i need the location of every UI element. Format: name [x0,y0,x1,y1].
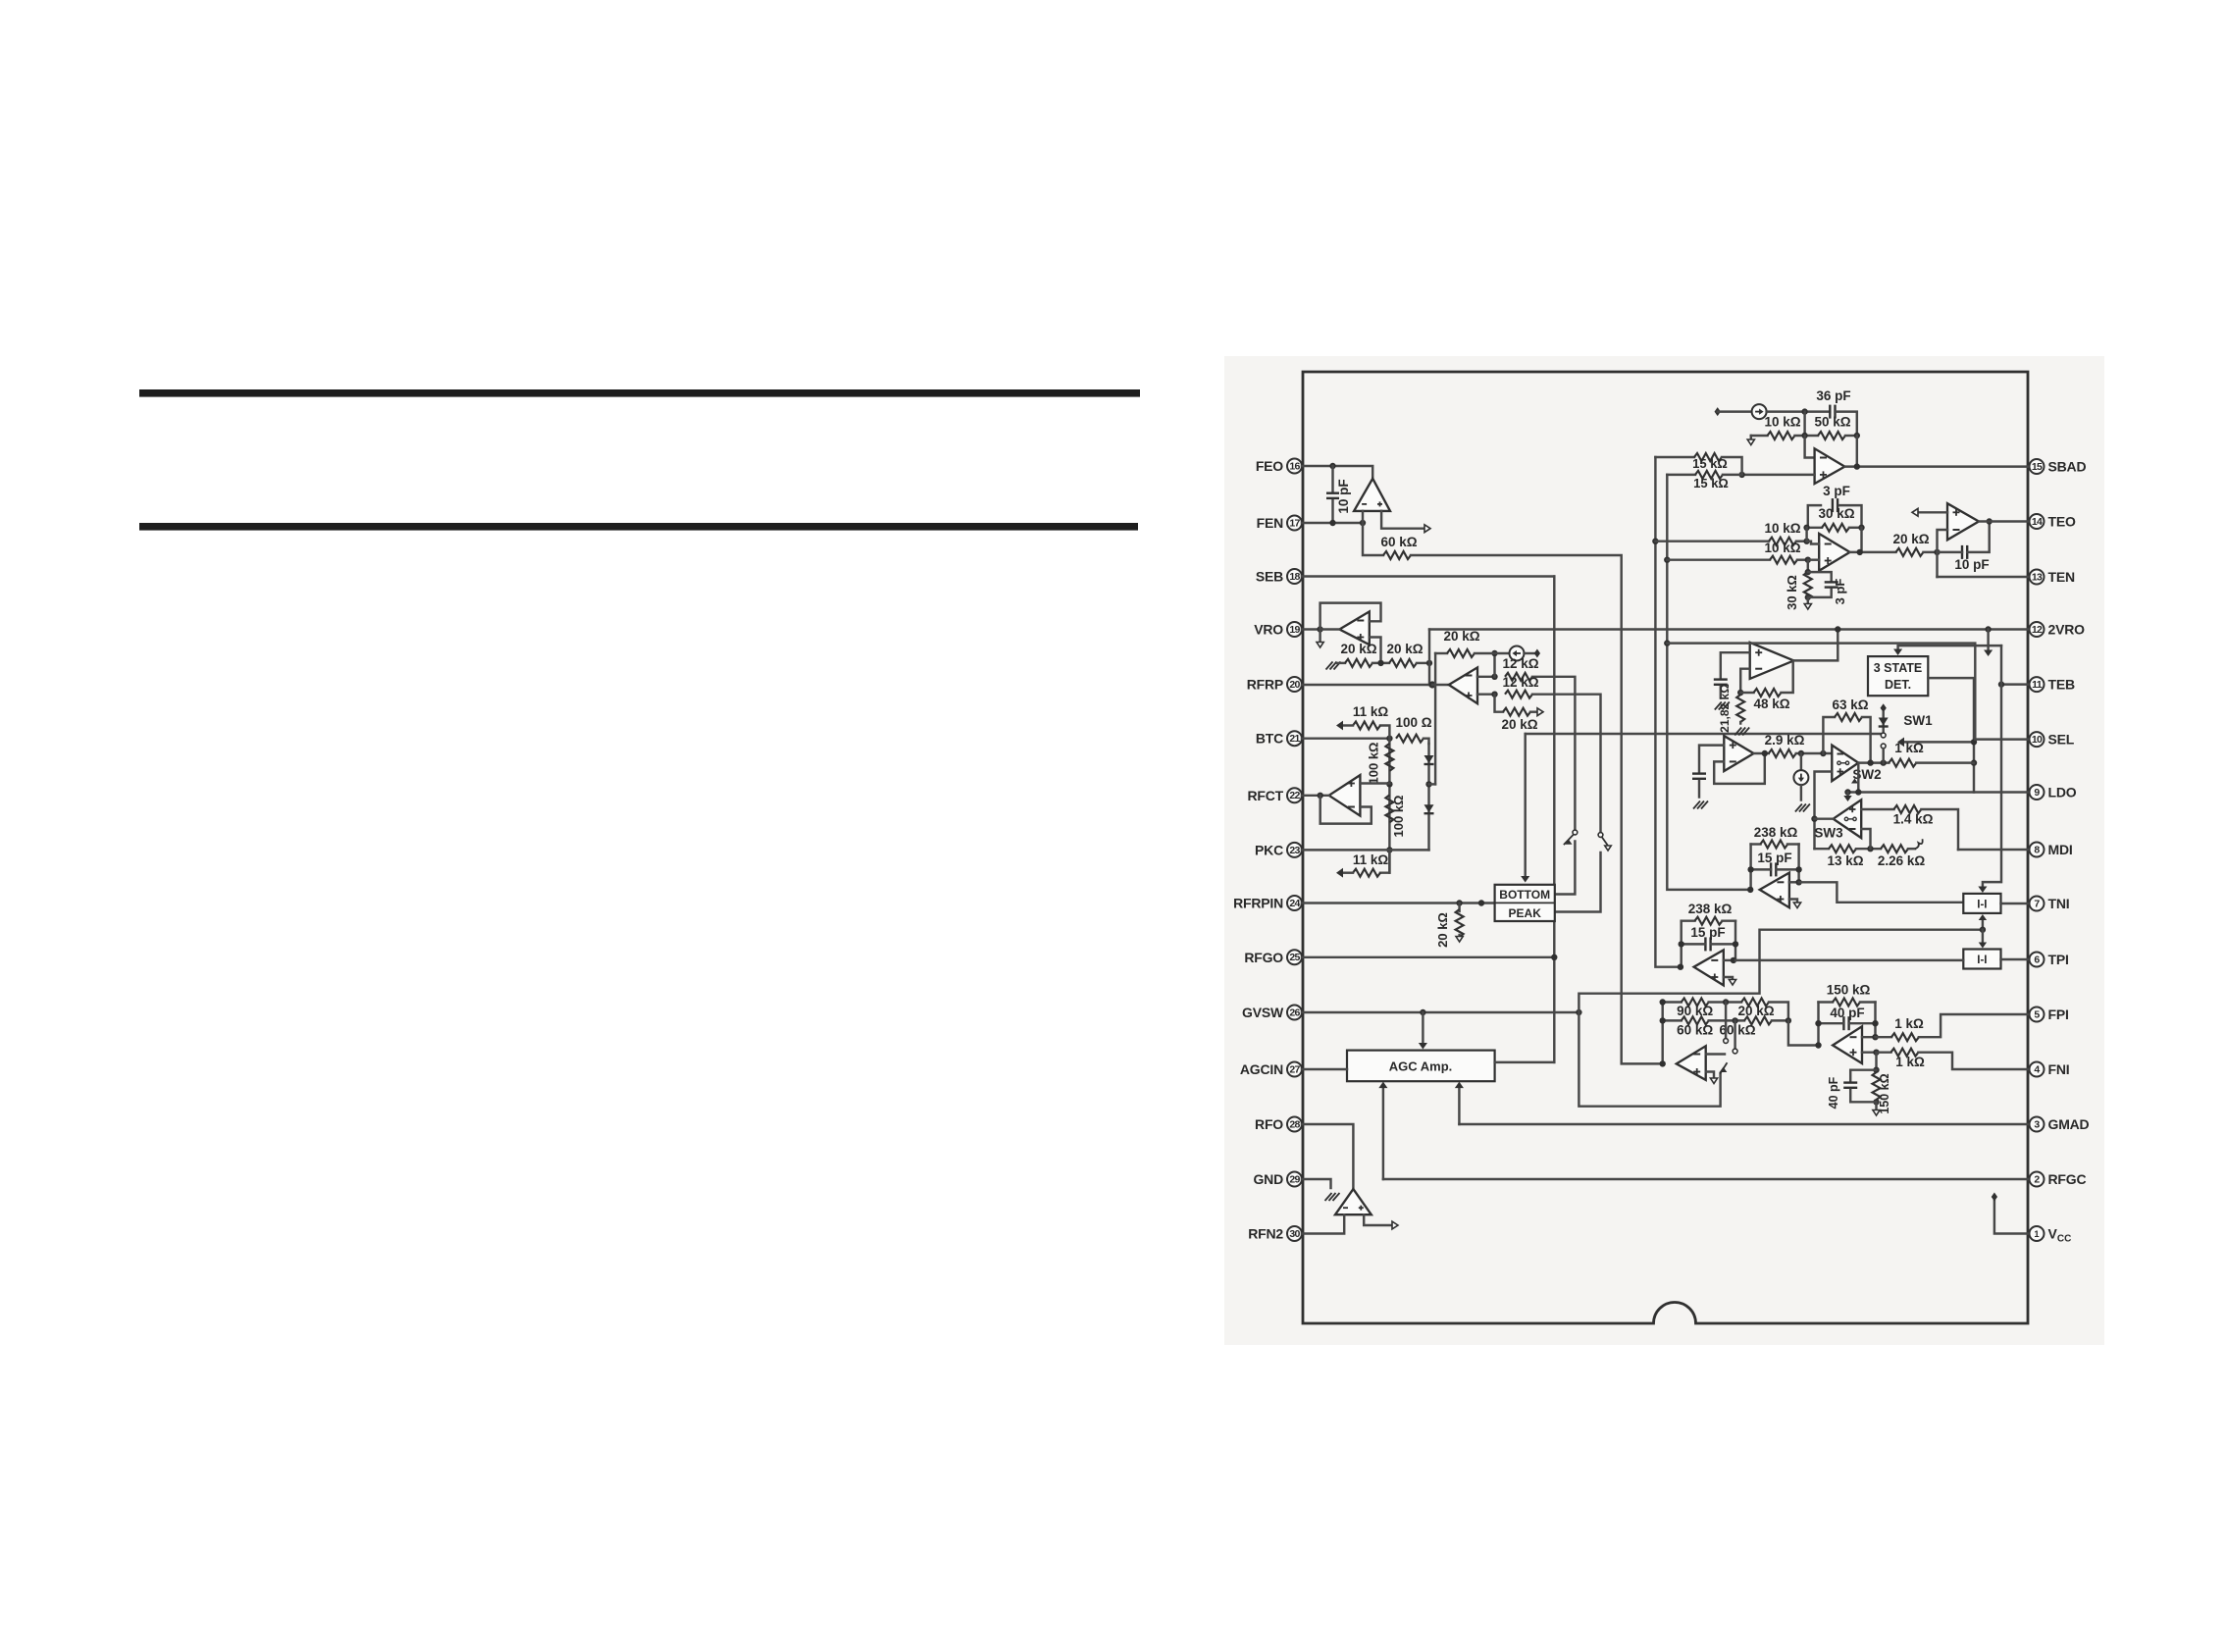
op-amp A16 (FPI amp) [1833,1026,1862,1063]
svg-text:3 pF: 3 pF [1823,484,1850,498]
wire GMAD riser into AGC [1458,1088,1460,1124]
node 9060 input node [1660,1060,1666,1066]
svg-text:10 kΩ: 10 kΩ [1764,541,1800,555]
wire 10k/50k row stem [1803,412,1805,436]
node FEN-cap junction [1329,520,1335,526]
svg-text:15 kΩ: 15 kΩ [1692,456,1728,471]
pin 3 GMAD [2030,1117,2045,1132]
svg-text:15 kΩ: 15 kΩ [1693,476,1729,490]
open arrow 150k-2 ground [1873,1110,1880,1116]
wire 36pF right corner [1836,412,1857,436]
svg-text:40 pF: 40 pF [1827,1076,1840,1109]
node int1 right cap node [1795,866,1801,872]
switch S-90k circle a [1724,1039,1729,1044]
wire 15pF a row [1751,868,1772,870]
wire 10pF left [1938,551,1963,553]
wire 30k to gnd arrow [1807,597,1809,603]
switch S-gv blade [1721,1063,1727,1073]
wire 15k#1 row [1655,456,1694,458]
node 150k-2 bottom node [1873,1099,1879,1105]
node 40pF right node [1872,1020,1878,1026]
wire cur-src3 stem [1800,753,1802,770]
node 1k-SW1 junction [1971,759,1977,765]
wire 3state right to SW1 column [1928,678,1974,792]
wire int1 left vertical [1749,845,1751,890]
wire RFGC riser into AGC [1382,1088,1384,1179]
box BOTTOM/PEAK detector [1495,885,1555,921]
svg-text:RFGC: RFGC [2048,1171,2087,1187]
wire SW1 annotation stem [1904,741,1974,743]
capacitor C-15pF a [1770,862,1772,876]
ground hatch 2.9k cap [1693,801,1700,809]
wire TEB vertical [1983,645,2001,886]
wire diode branch right [1429,783,1436,785]
node 2.9k mid node [1798,750,1804,756]
wire SW1 to SW2 out [1882,749,1884,763]
capacitor C-3pF top [1832,498,1834,512]
wire cs2 to cap [1767,410,1831,412]
resistor R-10k SBAD [1768,432,1795,439]
svg-text:12: 12 [2032,624,2043,636]
current source CS2 (arrow right) [1752,404,1767,419]
svg-text:13: 13 [2032,571,2043,583]
solid arrow down into TPI box [1979,943,1987,949]
node 9060 left node b [1660,1017,1666,1023]
solid arrow into BOTTOM box [1521,876,1529,883]
wire 13k right [1856,848,1881,850]
wire cur-src riser to RFCT diode branch [1434,653,1436,784]
wire 48k fb right riser [1782,660,1793,693]
svg-text:28: 28 [1289,1118,1300,1130]
node 63k riser node [1820,750,1826,756]
wire 150k-2 stem [1875,1053,1877,1070]
wire SW3 + to 1.4k [1861,808,1893,810]
wire 11k top branch [1380,726,1389,739]
wire A8 - elbow [1938,530,1948,577]
svg-text:1 kΩ: 1 kΩ [1894,741,1924,755]
wire row2 right [1772,1019,1788,1021]
capacitor C-2.9k [1692,772,1706,774]
svg-text:TEN: TEN [2048,569,2075,585]
wire A13 + stub gnd [1789,900,1797,903]
node int1 left cap node [1747,866,1753,872]
node 36pF left junction [1801,408,1807,414]
svg-text:15 pF: 15 pF [1757,851,1791,865]
open arrow A14 + ground [1729,980,1735,986]
svg-text:3: 3 [2034,1118,2040,1130]
wire int2 right vertical [1734,921,1736,960]
node TEB corner node [1998,681,2004,687]
svg-text:30 kΩ: 30 kΩ [1818,506,1854,521]
wire 3pF right [1839,505,1862,528]
resistor R-11k bottom [1353,869,1380,877]
wire 9060 left vertical [1661,1003,1663,1064]
svg-text:10 kΩ: 10 kΩ [1764,415,1800,430]
wire RFGC pin2 long line [1383,1178,2028,1180]
node int2 right cap node [1733,941,1738,947]
svg-text:10 pF: 10 pF [1336,479,1351,513]
solid arrow TEB into I-I [1978,887,1987,894]
mark SW3 minus [1849,828,1856,830]
svg-text:16: 16 [1289,460,1300,472]
wire 11k bottom to arrow [1343,871,1353,873]
ground hatch GND pin [1325,1193,1332,1201]
switch SW1 circle a [1881,733,1886,738]
svg-text:100 Ω: 100 Ω [1395,715,1431,730]
node 30k loop right [1858,525,1864,531]
svg-text:19: 19 [1289,624,1300,636]
svg-text:29: 29 [1289,1173,1300,1185]
wire A2 output to pin [1320,628,1340,630]
switch S-peak circle [1598,833,1603,838]
wire A16 + stub [1862,1051,1877,1053]
wire AGC output to vertical [1495,1061,1555,1063]
node divider mid [1377,660,1383,666]
resistor R-13k [1829,845,1856,852]
wire A9 + elbow to cap [1721,652,1750,677]
svg-text:30: 30 [1289,1228,1300,1240]
pin 20 RFRP [1287,677,1302,692]
hook end squiggle [1915,839,1923,849]
wire Va 15k#1 feed vertical [1655,457,1681,967]
node Va 10k-row junction [1652,539,1658,544]
node GVSW-AGC junction [1420,1009,1425,1015]
node LDO-SW2 junction [1855,789,1861,795]
wire A15 - stub to switch [1706,1053,1725,1055]
wire 1k to FPI pin [1919,1014,2028,1037]
wire 21.82k to gnd [1739,722,1741,724]
wire A16 - 1k row [1876,1036,1892,1038]
wire 15k#2 right [1723,474,1742,476]
solid arrow into SW3 top [1843,796,1851,801]
switch S-bottom arrow [1566,840,1573,845]
wire TEN pin13 line [1938,576,2029,578]
node 15k + node [1738,472,1744,478]
wire I-I up arrow stem [1982,919,1984,930]
wire 30k-gnd branch [1807,560,1809,572]
wire Vb 15k#2 feed vertical [1667,475,1750,890]
node 20k out node [1934,549,1940,555]
wire A14 + stub gnd [1724,977,1733,979]
svg-text:238 kΩ: 238 kΩ [1688,902,1733,916]
svg-text:36 pF: 36 pF [1816,388,1850,403]
wire 15pF b row r [1711,943,1735,945]
node 30k top node [1805,569,1811,575]
svg-text:AGC Amp.: AGC Amp. [1389,1059,1453,1074]
wire SW1 line horizontal [1526,733,1884,735]
node mid 100k node [1386,781,1392,787]
wire VRO pin19 [1302,628,1320,630]
svg-text:60 kΩ: 60 kΩ [1380,535,1417,549]
wire fb left riser [1805,528,1807,542]
wire int2 loop top [1682,919,1695,921]
op-amp A10 (2.9k amp) [1724,736,1753,771]
svg-text:7: 7 [2034,898,2040,909]
wire cur-src right [1525,652,1535,654]
wire 15pF a row r [1776,868,1798,870]
wire 20k arrow-row [1530,710,1537,712]
wire VRO ground stem [1319,630,1320,642]
pin 18 SEB [1287,569,1302,584]
wire cap stem top [1331,466,1333,490]
node FPI input node [1815,1042,1821,1048]
svg-text:60 kΩ: 60 kΩ [1677,1023,1713,1038]
svg-text:1 kΩ: 1 kΩ [1894,1016,1924,1031]
wire cur-src row left corner [1435,652,1447,654]
wire cap to gnd [1720,687,1722,698]
wire A2 feedback loop [1320,603,1381,630]
wire 20k pulldown stem [1458,903,1460,912]
svg-text:150 kΩ: 150 kΩ [1878,1073,1891,1113]
resistor R-30k fb [1822,524,1849,532]
wire + node down branch [1495,695,1504,712]
wire 11k bottom branch [1380,850,1389,872]
wire 10pF to riser [1967,522,1990,552]
svg-text:10 kΩ: 10 kΩ [1764,521,1800,536]
wire 15k#2 row [1667,474,1695,476]
wire 150k-2 to arrow [1875,1102,1877,1110]
resistor R-150k vert [1873,1072,1881,1100]
node Vb SEL junction [1664,640,1670,645]
node 10k#1 node [1803,539,1809,544]
svg-text:1: 1 [2034,1229,2039,1239]
wire 30k loop row [1807,527,1822,529]
wire 60k branch [1363,523,1383,555]
resistor R-20k b [1389,659,1417,667]
open arrow SBAD row ground [1747,439,1754,445]
wire A13 - stub [1789,881,1799,883]
mark SW2 plus [1838,771,1844,773]
wire TEB pin11 [2001,683,2028,685]
svg-text:11 kΩ: 11 kΩ [1353,704,1389,719]
op-amp A8 (TEO out amp) [1947,503,1979,540]
wire S-peak to PEAK box [1555,852,1601,912]
wire A7 - stub [1807,542,1820,544]
resistor R-11k top [1353,722,1380,730]
svg-text:6: 6 [2034,954,2040,965]
current source CS3 (down) [1793,770,1808,785]
wire 9060 row2 left [1663,1019,1682,1021]
wire RFRP junction to tip [1432,684,1449,686]
node row2 right node [1786,1017,1791,1023]
wire SW3 - feedback [1861,829,1870,849]
svg-text:15: 15 [2032,461,2043,473]
solid arrow up into TNI box [1979,914,1987,920]
wire SW3 tip stub [1815,817,1834,819]
node A13 - node [1795,879,1801,885]
wire A6 output to pin15 [1844,465,2028,467]
wire row1 mid [1709,1001,1741,1003]
wire 2VRO stub down [1987,630,1989,650]
pin 14 TEO [2030,514,2045,529]
svg-text:2: 2 [2034,1173,2040,1185]
pin 7 TNI [2030,897,2045,911]
svg-text:BTC: BTC [1256,731,1283,747]
diode column wire [1427,744,1429,850]
resistor R-1k FNI [1890,1049,1918,1057]
wire V1 2VRO to RFRP junction [1428,630,1430,686]
wire SW2 output row [1858,761,1889,763]
wire 3pF-par bottom [1808,590,1832,597]
wire row1 right [1769,1003,1788,1021]
capacitor C-36pF [1829,405,1831,419]
node 48k - node [1737,690,1743,696]
wire sw stem a [1725,1003,1727,1038]
wire SW2-out down to LDO [1857,763,1859,793]
node RFRPIN junction [1456,900,1462,905]
pin 26 GVSW [1287,1006,1302,1020]
pin 21 BTC [1287,731,1302,746]
wire A14 - stub [1724,959,1735,961]
wire A16 + 1k row [1877,1051,1891,1053]
wire fb right riser [1860,528,1862,552]
resistor R-10k a [1769,538,1796,545]
resistor R-15k a [1694,453,1722,461]
wire row2 right [1845,435,1857,437]
wire 150k loop top [1819,1001,1834,1003]
divider BOTTOM/PEAK [1495,902,1555,903]
resistor R-50k SBAD [1818,432,1845,439]
heading rule bar 2 [139,523,1138,531]
wire 15pF b row [1682,943,1706,945]
solid arrow 11k top [1336,721,1343,731]
wire 3pF loop [1808,505,1821,528]
svg-text:22: 22 [1289,790,1300,801]
node 150k-2 top node [1873,1067,1879,1073]
vertical 100k column [1388,739,1390,873]
svg-text:VRO: VRO [1254,622,1283,638]
wire A4 + input row [1360,782,1389,784]
wire RFN2 pin30 [1302,1214,1344,1233]
wire I-I down arrow stem [1982,930,1984,944]
svg-text:20 kΩ: 20 kΩ [1443,629,1479,644]
box I-I TNI [1963,894,2000,913]
op-amp A5 (RFN2 buffer, up-pointing) [1335,1189,1372,1214]
capacitor C-FEO 10pF [1326,492,1339,494]
pin 17 FEN [1287,516,1302,531]
wire RFRP pin20 [1302,684,1432,686]
node A14 - node [1731,957,1736,963]
op-amp A2 (VRO buffer) [1339,611,1369,645]
pin 28 RFO [1287,1117,1302,1132]
wire A10 feedback box [1714,753,1765,784]
wire A8 + to open arrow [1918,511,1947,513]
node 10k#2 node [1805,557,1811,563]
svg-text:RFN2: RFN2 [1248,1226,1283,1242]
pin 24 RFRPIN [1287,896,1302,910]
pin 6 TPI [2030,953,2045,967]
diode D2 [1424,804,1434,812]
mark SW2 switch glyph [1838,761,1840,764]
ground hatch 48k cap [1715,702,1722,710]
svg-text:20 kΩ: 20 kΩ [1501,717,1537,732]
wire 12k-b to switch column [1532,695,1601,832]
wire RFCT pin22 [1302,795,1329,797]
node 40pF left node [1815,1020,1821,1026]
capacitor C-40pF vert [1843,1081,1857,1083]
resistor R-60k a [1682,1016,1709,1024]
pin 27 AGCIN [1287,1062,1302,1077]
node A3 - node [1491,674,1497,680]
node RFGO-vertical junction [1551,955,1557,960]
svg-text:BOTTOM: BOTTOM [1499,888,1550,902]
node A3 + node [1491,692,1497,697]
capacitor C-40pF a [1842,1016,1844,1030]
node A9-2VRO junction [1835,626,1840,632]
switch SW1 circle b [1881,744,1886,749]
wire SW1-line down arrow into BOTTOM [1524,734,1526,876]
wire pulldown to arrow [1458,935,1460,936]
wire SBAD top row left [1718,410,1752,412]
svg-text:FNI: FNI [2048,1061,2070,1077]
wire BTC pin21 [1302,737,1389,739]
wire 50k down to output [1856,436,1858,467]
resistor R-2.9k [1769,749,1796,757]
pin 19 VRO [1287,622,1302,637]
svg-text:238 kΩ: 238 kΩ [1754,825,1798,840]
wire divider mid [1372,662,1389,664]
op-amp A6 (SBAD) [1815,448,1845,484]
svg-text:50 kΩ: 50 kΩ [1814,415,1850,430]
wire A10 + elbow to cap [1699,746,1724,772]
svg-text:FEO: FEO [1256,458,1283,474]
resistor R-10k b [1770,556,1797,564]
svg-text:63 kΩ: 63 kΩ [1832,697,1868,712]
node RFRPIN box-side junction [1478,900,1484,905]
op-amp A7 (TEN amp) [1819,534,1849,571]
wire 150k loop right [1860,1001,1876,1003]
node SW1 column junction [1971,739,1977,745]
mark A6 minus [1820,457,1827,459]
ground hatch VRO divider [1326,662,1333,670]
wire int1 loop top right [1787,843,1799,845]
resistor R-100 BTC [1396,735,1424,743]
wire 40pF-2 branch bottom [1850,1090,1876,1102]
svg-text:11 kΩ: 11 kΩ [1353,852,1389,867]
svg-text:3 STATE: 3 STATE [1874,661,1923,675]
resistor R-150k [1833,999,1860,1007]
wire int1 loop top [1751,843,1761,845]
svg-text:30 kΩ: 30 kΩ [1785,575,1799,610]
wire A7 + stub [1808,558,1819,560]
svg-text:RFRP: RFRP [1247,677,1283,693]
pin 22 RFCT [1287,788,1302,802]
resistor R-1.4k [1893,805,1921,813]
resistor R-238k b [1695,917,1723,925]
wire A10 output row [1754,752,1769,754]
wire RFGO pin25 [1302,956,1554,958]
svg-text:20 kΩ: 20 kΩ [1340,642,1376,656]
wire 48k fb row [1740,692,1753,694]
mark SW2 minus [1838,753,1844,755]
node A16 + node [1873,1050,1879,1056]
wire A4 feedback box [1320,796,1372,824]
node divider-V1 junction [1426,660,1432,666]
wire 11k top to arrow [1343,724,1353,726]
svg-text:TEB: TEB [2048,677,2075,693]
wire 150k right vert [1874,1003,1876,1038]
resistor R-20k arrow-row [1503,708,1530,716]
open arrow A5 output [1392,1221,1398,1229]
switch S-bottom circle [1573,830,1578,835]
solid arrow SW1 pointer [1897,738,1904,748]
box AGC Amp [1347,1051,1495,1082]
node SW3 tip junction [1811,816,1817,822]
wire VRO divider row [1337,662,1345,664]
wire row2 mid [1709,1019,1744,1021]
wire LDO arrow into SW3 [1846,793,1848,796]
capacitor C-3pF vert [1825,581,1838,583]
